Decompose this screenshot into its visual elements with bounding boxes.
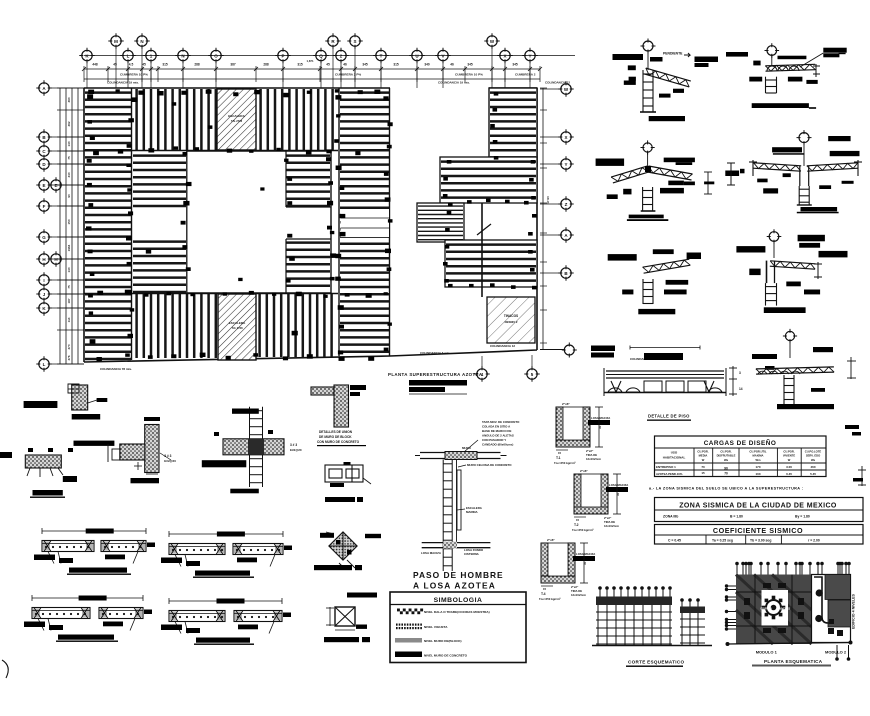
svg-text:MODULO 1: MODULO 1 <box>756 650 778 655</box>
plan right column horizontal joists <box>340 93 389 352</box>
svg-text:DESNIV 2: DESNIV 2 <box>505 320 518 324</box>
grid bubbles right column <box>558 81 573 96</box>
svg-text:2"x6": 2"x6" <box>562 402 570 406</box>
svg-text:A LOSA AZOTEA: A LOSA AZOTEA <box>413 581 496 591</box>
detail: parapet wall section top-left <box>24 401 58 408</box>
svg-text:PLANTA SUPERESTRUCTURA AZOTE: PLANTA SUPERESTRUCTURA AZOTEA <box>388 372 483 377</box>
plan left column horizontal joists <box>85 93 131 359</box>
svg-text:150: 150 <box>67 219 71 224</box>
svg-text:17.90: 17.90 <box>546 196 550 204</box>
svg-text:N: N <box>181 53 184 58</box>
svg-text:COLINDANCIA 19 mts.: COLINDANCIA 19 mts. <box>107 81 139 85</box>
beam detail at 32,598 <box>32 597 143 599</box>
svg-text:NIVEL MURO DE CONCRETO: NIVEL MURO DE CONCRETO <box>424 654 468 658</box>
svg-text:70: 70 <box>724 472 728 476</box>
svg-text:45: 45 <box>142 63 146 67</box>
svg-text:3: 3 <box>739 371 741 375</box>
detail C far-right I-beam symbol <box>725 171 739 177</box>
svg-text:3.00: 3.00 <box>786 465 792 469</box>
plan courtyard cluster top-right <box>286 156 330 206</box>
svg-text:Ta = 0.25 seg: Ta = 0.25 seg <box>712 539 733 543</box>
svg-text:114: 114 <box>67 317 71 322</box>
main plan: left dimension lines <box>59 88 61 364</box>
svg-text:75: 75 <box>67 156 71 160</box>
svg-text:G: G <box>42 235 46 240</box>
svg-text:DISFRUTABLE: DISFRUTABLE <box>717 454 736 458</box>
detalle de piso: vigueta y bovedilla section <box>591 346 615 352</box>
svg-text:345: 345 <box>512 63 518 67</box>
svg-text:Y: Y <box>528 53 531 58</box>
svg-text:390: 390 <box>67 97 71 102</box>
svg-text:MURO CELOSIA DE CONCRETO: MURO CELOSIA DE CONCRETO <box>467 463 512 467</box>
svg-text:ZONA SISMICA DE LA CIUDAD DE M: ZONA SISMICA DE LA CIUDAD DE MEXICO <box>679 503 837 510</box>
right wing scattered blocks <box>443 92 537 289</box>
corte esquematico: small block <box>680 607 705 614</box>
svg-text:PENDIENTE: PENDIENTE <box>663 52 683 56</box>
svg-text:46: 46 <box>450 63 454 67</box>
svg-text:EDIFICIO: EDIFICIO <box>761 607 772 611</box>
small glyph under plan left <box>68 384 79 393</box>
svg-text:F: F <box>43 204 46 209</box>
svg-text:TAPA MOV. DE CONCRETO: TAPA MOV. DE CONCRETO <box>482 420 520 424</box>
svg-text:30: 30 <box>598 425 602 429</box>
svg-text:ZONA IIIb: ZONA IIIb <box>663 515 678 519</box>
svg-text:45: 45 <box>326 63 330 67</box>
svg-text:15: 15 <box>576 518 580 522</box>
svg-text:DETALLES DE UNION: DETALLES DE UNION <box>319 430 353 434</box>
detail: cross wall-beam section right <box>250 407 263 487</box>
detail A: roof edge section top-left <box>641 39 656 54</box>
svg-text:387: 387 <box>230 63 236 67</box>
svg-text:S: S <box>353 39 356 44</box>
svg-text:315: 315 <box>297 63 303 67</box>
svg-text:170: 170 <box>755 465 760 469</box>
svg-text:COLINDANCIA 78 mts.: COLINDANCIA 78 mts. <box>100 367 132 371</box>
corte esquematico: ground line <box>592 645 712 647</box>
svg-text:BASE DE MARCO DE: BASE DE MARCO DE <box>482 429 511 433</box>
svg-text:CON MURO DE CONCRETO: CON MURO DE CONCRETO <box>317 440 360 444</box>
svg-text:345: 345 <box>467 63 473 67</box>
plan bottom band vertical joists left of stair <box>137 294 216 358</box>
right wing right edge dimension <box>542 88 544 350</box>
svg-text:CARGAS DE DISEÑO: CARGAS DE DISEÑO <box>704 438 777 447</box>
svg-text:2"x6": 2"x6" <box>547 538 555 542</box>
corte esquematico: pins <box>598 586 602 598</box>
svg-text:VIVIENTE: VIVIENTE <box>783 454 795 458</box>
svg-text:V: V <box>441 53 444 58</box>
svg-text:HABITACIONAL: HABITACIONAL <box>663 456 686 460</box>
svg-text:O: O <box>214 53 218 58</box>
svg-text:SIMBOLOGIA: SIMBOLOGIA <box>434 597 483 604</box>
svg-text:90: 90 <box>724 467 728 471</box>
svg-text:Y: Y <box>564 162 567 167</box>
plan stair 1 hatched <box>217 89 256 150</box>
svg-text:288: 288 <box>194 63 200 67</box>
svg-text:15: 15 <box>543 587 547 591</box>
right wing lower block <box>445 240 537 287</box>
svg-text:I: I <box>43 278 44 283</box>
plan bottom band vertical joists right of stair <box>260 294 332 357</box>
grid bubbles left pairs <box>48 177 63 192</box>
detail F: parapet section bottom-right <box>767 229 782 244</box>
svg-text:187: 187 <box>67 298 71 303</box>
svg-text:DE MURO DE BLOCK: DE MURO DE BLOCK <box>319 435 352 439</box>
left margin curve swoosh <box>2 660 8 678</box>
svg-text:90: 90 <box>67 194 71 198</box>
svg-text:2"x6": 2"x6" <box>580 469 588 473</box>
svg-text:MODULO 2: MODULO 2 <box>825 650 847 655</box>
svg-text:12x10x5cm: 12x10x5cm <box>586 457 601 461</box>
svg-text:LOSA MACIZA: LOSA MACIZA <box>609 483 628 487</box>
svg-text:14: 14 <box>739 387 743 391</box>
svg-text:P: P <box>281 53 284 58</box>
paso de hombre: top slab <box>420 452 501 454</box>
svg-text:315: 315 <box>162 63 168 67</box>
svg-text:DETALLE DE PISO: DETALLE DE PISO <box>648 414 690 419</box>
svg-text:C = 0.45: C = 0.45 <box>668 539 681 543</box>
planta esquematica: modulo 1 block <box>736 575 812 645</box>
svg-text:CUMBRERA 10 P%: CUMBRERA 10 P% <box>120 73 148 77</box>
svg-text:X: X <box>503 53 506 58</box>
plan courtyard cluster bottom-right <box>286 243 330 286</box>
svg-text:CANDADO (60x60cms): CANDADO (60x60cms) <box>482 443 513 447</box>
zona sismica table <box>655 498 864 522</box>
svg-text:T: T <box>380 53 383 58</box>
svg-text:AZOTEA PEND.10%: AZOTEA PEND.10% <box>656 472 683 476</box>
svg-text:NIVEL VIGUETA: NIVEL VIGUETA <box>424 625 448 629</box>
detail: two-cell beam plan <box>344 462 351 466</box>
planta esquematica: left pins <box>725 584 736 587</box>
svg-text:15: 15 <box>701 471 705 475</box>
planta esquematica: modulo 1 rosette <box>766 600 781 615</box>
plan outer boundary <box>84 88 537 362</box>
svg-text:Q: Q <box>319 53 323 58</box>
corte esquematico: main block <box>596 597 672 606</box>
svg-text:140: 140 <box>67 141 71 146</box>
svg-text:3 # 3: 3 # 3 <box>164 454 171 458</box>
detalle de piso left bubble <box>562 343 577 358</box>
svg-text:E: E <box>54 183 57 188</box>
svg-text:1,871: 1,871 <box>307 59 314 63</box>
svg-text:30: 30 <box>616 492 620 496</box>
svg-text:345: 345 <box>362 63 368 67</box>
svg-text:NIVELES: NIVELES <box>779 607 790 611</box>
svg-text:SERV. EDO: SERV. EDO <box>806 454 820 458</box>
svg-text:340: 340 <box>67 172 71 177</box>
right wing tinacos hatched <box>487 297 535 343</box>
svg-text:TINACOS: TINACOS <box>504 314 518 318</box>
svg-text:70: 70 <box>701 465 705 469</box>
svg-text:ENTREPISO 1: ENTREPISO 1 <box>656 465 676 469</box>
detail C: ridge section mid-left <box>641 140 655 154</box>
svg-text:392: 392 <box>67 121 71 126</box>
svg-text:45: 45 <box>113 63 117 67</box>
svg-text:ANGULO DE 2 ALETAS: ANGULO DE 2 ALETAS <box>482 434 514 438</box>
grid bubbles below plan <box>474 366 489 381</box>
detail E: eave section bottom-left <box>653 249 674 254</box>
grid bubbles top row 1 <box>108 33 123 48</box>
svg-text:Wa: Wa <box>811 458 815 462</box>
beam detail at 169,534 <box>169 533 283 535</box>
svg-text:CU.POR.: CU.POR. <box>783 450 794 454</box>
svg-text:NIVEL DALA O TRABE(COCIDAS MUE: NIVEL DALA O TRABE(COCIDAS MUESTRA) <box>424 610 490 614</box>
svg-text:0.45: 0.45 <box>786 472 792 476</box>
svg-text:N: N <box>140 39 143 44</box>
plan top band vertical joists left of stair <box>137 89 216 150</box>
svg-text:CU.POR.: CU.POR. <box>697 450 708 454</box>
detail: corner reinforcement plan <box>320 533 334 538</box>
svg-text:MURO: MURO <box>462 446 472 450</box>
svg-text:L: L <box>127 53 130 58</box>
svg-text:MARINA: MARINA <box>466 510 478 514</box>
svg-text:By = 1.80: By = 1.80 <box>795 515 810 519</box>
svg-text:CUMBRERA 2: CUMBRERA 2 <box>515 73 536 77</box>
svg-text:CORTE ESQUEMATICO: CORTE ESQUEMATICO <box>628 660 684 665</box>
detail C right dimension bracket <box>704 172 712 194</box>
beam detail at 42,531 <box>42 530 146 532</box>
svg-text:46: 46 <box>343 63 347 67</box>
svg-text:140: 140 <box>67 267 71 272</box>
svg-text:NIVEL MURO DE(BLOCK): NIVEL MURO DE(BLOCK) <box>424 639 462 643</box>
plan mid-left cluster upper <box>133 156 186 206</box>
svg-text:1964: 1964 <box>67 244 71 251</box>
svg-text:T.1: T.1 <box>556 456 561 460</box>
svg-text:376: 376 <box>67 355 71 360</box>
planta esquematica: modulo 1 inner dark cells <box>744 583 804 633</box>
svg-text:LOSA MACIZA: LOSA MACIZA <box>591 416 610 420</box>
planta esquematica: modulo 2 <box>812 575 851 643</box>
svg-text:PASO DE HOMBRE: PASO DE HOMBRE <box>413 570 504 580</box>
svg-text:COEFICIENTE SISMICO: COEFICIENTE SISMICO <box>713 526 803 535</box>
svg-text:315: 315 <box>393 63 399 67</box>
svg-text:U: U <box>415 53 418 58</box>
svg-text:T.N. 2728: T.N. 2728 <box>231 119 243 123</box>
svg-text:370: 370 <box>67 344 71 349</box>
plan courtyard border <box>187 151 331 293</box>
svg-text:75: 75 <box>67 285 71 289</box>
svg-text:L: L <box>43 362 46 367</box>
svg-text:f'ce=250 kg/cm²: f'ce=250 kg/cm² <box>572 528 594 532</box>
plan mid-left cluster lower <box>133 242 186 292</box>
svg-text:Wa: Wa <box>724 458 728 462</box>
plan top band vertical joists right of stair <box>261 89 333 150</box>
svg-text:CISTERNA: CISTERNA <box>464 552 480 556</box>
svg-text:CU.PO.LOTE: CU.PO.LOTE <box>805 450 822 454</box>
main plan: grid dimension lines top <box>84 55 575 57</box>
grid bubbles top row 2 <box>79 48 94 63</box>
svg-text:15: 15 <box>558 451 562 455</box>
svg-text:LOSA MACIZA: LOSA MACIZA <box>421 551 442 555</box>
svg-text:H: H <box>54 257 57 262</box>
simbologia row 3 gray bar symbol <box>395 638 422 643</box>
planta esquematica: bottom boundary <box>728 643 851 645</box>
right wing stair ladder <box>417 203 464 242</box>
detail: T union muro block top <box>311 387 346 395</box>
coeficiente sismico table <box>655 525 864 545</box>
svg-text:COLINDANCIA 12: COLINDANCIA 12 <box>490 344 515 348</box>
svg-text:E#2@20: E#2@20 <box>290 448 302 452</box>
beam detail at 169,601 <box>169 600 282 602</box>
far right edge small marks <box>845 425 859 429</box>
svg-text:ESCALERA: ESCALERA <box>228 114 245 118</box>
svg-text:T.N. 2728: T.N. 2728 <box>231 326 243 330</box>
svg-text:r = 2.00: r = 2.00 <box>808 539 820 543</box>
svg-text:PLANTA ESQUEMATICA: PLANTA ESQUEMATICA <box>764 659 823 664</box>
detail: lintel beam section left <box>25 455 61 468</box>
svg-text:MAXIMA: MAXIMA <box>753 454 764 458</box>
detail: L corner wall-beam section center <box>74 441 115 446</box>
svg-text:3 # 3: 3 # 3 <box>290 443 297 447</box>
svg-text:T.2: T.2 <box>574 523 579 527</box>
svg-text:H: H <box>42 257 45 262</box>
simbologia row 1 checker symbol <box>397 609 423 615</box>
svg-text:4.5: 4.5 <box>129 63 134 67</box>
right wing spine <box>481 203 483 297</box>
planta esquematica: modulo 1 courtyard <box>762 590 789 626</box>
simbologia legend box <box>390 592 526 663</box>
svg-text:W: W <box>788 458 791 462</box>
svg-text:448: 448 <box>92 63 98 67</box>
detalle de piso right dim <box>729 366 737 396</box>
svg-text:USO: USO <box>671 451 678 455</box>
plan right band white pocket <box>341 209 390 237</box>
svg-text:12x10x5cm: 12x10x5cm <box>604 524 619 528</box>
right wing middle block <box>440 157 537 203</box>
svg-text:CUMBRERA 2 P%: CUMBRERA 2 P% <box>335 73 361 77</box>
plan scattered connector blocks <box>86 89 393 361</box>
plan stair 2 hatched <box>218 294 256 360</box>
svg-text:LOSA MACIZA: LOSA MACIZA <box>576 552 595 556</box>
svg-text:100: 100 <box>755 472 760 476</box>
svg-text:CU.POR.: CU.POR. <box>720 450 731 454</box>
paso de hombre: bottom slab <box>422 542 491 544</box>
svg-text:a.- LA ZONA SISMICA DEL SUELO: a.- LA ZONA SISMICA DEL SUELO SE UBICO A… <box>649 487 803 491</box>
detail: column section with cross brace <box>347 593 377 598</box>
svg-text:f'ce=250 kg/cm²: f'ce=250 kg/cm² <box>539 597 561 601</box>
plan title scale bars <box>409 380 467 386</box>
right wing top block horizontal joists <box>489 88 537 166</box>
svg-text:12x10x5cm: 12x10x5cm <box>571 593 586 597</box>
svg-text:Tb = 3.00 seg: Tb = 3.00 seg <box>750 539 771 543</box>
simbologia row 2 dotted symbol <box>396 624 422 630</box>
svg-text:MEDIA: MEDIA <box>699 454 708 458</box>
svg-text:CUMBRERA 10 P%: CUMBRERA 10 P% <box>455 73 483 77</box>
svg-text:460: 460 <box>810 465 815 469</box>
svg-text:CU.POR.UTIL: CU.POR.UTIL <box>749 450 767 454</box>
svg-text:EDIFICIO 4 NIVELES: EDIFICIO 4 NIVELES <box>852 593 856 629</box>
mid row right: slab-beam detail <box>783 329 797 343</box>
svg-text:ESCALERA: ESCALERA <box>229 321 246 325</box>
svg-text:5.45: 5.45 <box>810 472 816 476</box>
svg-text:T.4: T.4 <box>541 592 546 596</box>
svg-text:W: W <box>702 458 705 462</box>
svg-text:CON PASADOR Y: CON PASADOR Y <box>482 438 506 442</box>
grid bubbles left column <box>36 80 51 95</box>
cargas de diseno table <box>655 436 827 477</box>
svg-text:X: X <box>564 135 567 140</box>
detail B: roof flat edge section top-right <box>765 43 780 58</box>
paso de hombre: ladder shaft <box>443 460 452 572</box>
svg-text:M: M <box>114 39 118 44</box>
simbologia row 4 black bar symbol <box>395 652 422 658</box>
detail D: valley section mid-right <box>797 130 812 145</box>
svg-text:Wm: Wm <box>756 458 762 462</box>
planta esquematica: top pins <box>735 562 739 575</box>
svg-text:Z: Z <box>565 202 568 207</box>
svg-text:E: E <box>42 183 45 188</box>
svg-text:B = 1.80: B = 1.80 <box>730 515 743 519</box>
svg-text:COLINDANCIA 5 mts.: COLINDANCIA 5 mts. <box>420 351 451 355</box>
svg-text:340: 340 <box>424 63 430 67</box>
svg-text:f'ce=250 kg/cm²: f'ce=250 kg/cm² <box>554 461 576 465</box>
svg-text:COLADA EN SITIO A: COLADA EN SITIO A <box>482 425 511 429</box>
svg-text:30: 30 <box>583 561 587 565</box>
svg-text:288: 288 <box>263 63 269 67</box>
